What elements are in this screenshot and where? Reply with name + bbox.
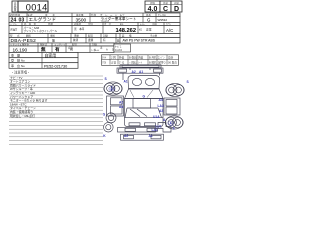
- svg-text:車検: 車検: [50, 34, 55, 38]
- table row2 header: [9, 22, 180, 26]
- svg-text:A2: A2: [119, 101, 123, 105]
- right side view panel: [164, 98, 180, 115]
- grade box D: [171, 1, 182, 13]
- svg-text:A2: A2: [124, 134, 128, 138]
- connector box: [114, 44, 131, 52]
- svg-text:A/C: A/C: [166, 28, 173, 33]
- svg-text:自税: 自税: [68, 46, 73, 50]
- svg-text:評価: 評価: [150, 1, 155, 5]
- roof rear edge band with hatch: [127, 107, 158, 109]
- svg-text:その他: その他: [150, 34, 158, 38]
- front bumper bar: [117, 68, 163, 73]
- svg-text:取説: 取説: [88, 34, 93, 38]
- grade box C: [160, 1, 171, 13]
- table row1 header: [9, 13, 180, 17]
- svg-text:内装: 内装: [138, 56, 144, 60]
- table row1 values: [9, 13, 180, 24]
- cabin: [125, 99, 164, 118]
- table row7 shadai No PE52-021730: [9, 63, 78, 69]
- svg-text:装 備: 装 備: [122, 34, 132, 38]
- left bottom wheel: [106, 113, 116, 123]
- svg-text:パール・SAB: パール・SAB: [24, 26, 40, 30]
- grade box 4.0: [145, 1, 160, 13]
- svg-text:C: C: [163, 6, 168, 13]
- svg-text:A1: A1: [139, 70, 143, 74]
- notes text lines: [10, 75, 48, 118]
- svg-text:A3: A3: [159, 109, 163, 113]
- lot label vertical box: [12, 1, 18, 12]
- svg-text:記録: 記録: [103, 34, 108, 38]
- bonnet panel: [128, 76, 160, 89]
- svg-text:正常: 正常: [146, 28, 152, 32]
- notes ruled lines with sales points: [9, 76, 103, 144]
- svg-text:B 汚れ: B 汚れ: [149, 56, 157, 60]
- svg-text:B 擦れ: B 擦れ: [149, 61, 157, 65]
- svg-text:黒 本革: 黒 本革: [74, 27, 85, 31]
- table row4 header recycle: [9, 43, 114, 47]
- svg-text:G: G: [143, 95, 146, 99]
- svg-text:2 回: 2 回: [111, 56, 116, 60]
- table row4 values 16.190: [9, 43, 114, 53]
- svg-text:装: 装: [117, 38, 120, 42]
- right bottom wheel housing: [165, 116, 183, 129]
- right top wheel pair: [166, 85, 177, 96]
- svg-text:A1: A1: [124, 80, 128, 84]
- svg-text:148.262: 148.262: [115, 28, 136, 34]
- svg-text:現状渡し・MiL点灯: 現状渡し・MiL点灯: [10, 113, 35, 118]
- damage codes blue: [103, 70, 190, 138]
- svg-text:書類: 書類: [74, 34, 79, 38]
- table row3 values DBA-PE52 / equipment: [9, 34, 180, 45]
- svg-text:外装: 外装: [163, 1, 168, 5]
- svg-text:ｴﾝｼﾞﾝ: ｴﾝｼﾞﾝ: [158, 57, 165, 60]
- svg-text:4.0: 4.0: [148, 6, 158, 13]
- svg-text:書類: 書類: [88, 38, 94, 42]
- svg-text:A3: A3: [119, 105, 123, 109]
- svg-text:A2: A2: [132, 70, 136, 74]
- svg-text:良好: 良好: [168, 56, 174, 60]
- rear gate bar: [118, 128, 156, 133]
- svg-text:LA3: LA3: [158, 104, 164, 108]
- svg-text:ブリリアントホワイトパール: ブリリアントホワイトパール: [24, 29, 58, 33]
- svg-text:自家用: 自家用: [45, 53, 57, 58]
- svg-text:ﾉｰｸﾚｰﾑ: ﾉｰｸﾚｰﾑ: [91, 48, 99, 52]
- svg-text:LA1: LA1: [152, 128, 158, 132]
- svg-text:番: 番: [14, 8, 17, 12]
- svg-text:9-AX4: 9-AX4: [115, 49, 123, 52]
- equipment condition grid right: [102, 55, 179, 66]
- svg-text:PE52-021730: PE52-021730: [44, 64, 67, 68]
- svg-text:G: G: [147, 17, 151, 22]
- svg-text:内装: 内装: [174, 1, 179, 5]
- svg-text:正常: 正常: [111, 61, 117, 65]
- svg-text:類別: 類別: [26, 34, 31, 38]
- left side view panel: [107, 96, 124, 116]
- svg-text:抹消: 抹消: [73, 38, 79, 42]
- roof strip bar: [120, 65, 161, 68]
- svg-text:無: 無: [52, 38, 55, 43]
- svg-text:型 式: 型 式: [10, 34, 20, 38]
- right top wheel housing: [166, 83, 184, 96]
- svg-text:・注意事項・: ・注意事項・: [11, 70, 30, 75]
- svg-text:0014: 0014: [26, 2, 48, 12]
- svg-text:ｶﾞﾗｽ: ｶﾞﾗｽ: [119, 61, 125, 65]
- svg-text:A: A: [106, 48, 108, 52]
- rear panel: [125, 118, 164, 127]
- fender connector lines: [122, 73, 124, 80]
- left top wheel pair: [104, 83, 115, 94]
- stepped rear corner: [158, 123, 171, 133]
- svg-text:足回り: 足回り: [158, 61, 166, 65]
- left top wheel housing: [104, 82, 122, 95]
- svg-text:A1: A1: [149, 134, 153, 138]
- table row3 header: [9, 34, 180, 38]
- svg-text:B 傷凹: B 傷凹: [129, 56, 137, 60]
- svg-text:D: D: [174, 6, 179, 13]
- table row5 shaReki jikayou: [9, 53, 78, 58]
- spare tire: [104, 122, 114, 132]
- svg-text:登 録 No: 登 録 No: [11, 58, 25, 63]
- svg-text:有: 有: [103, 38, 106, 42]
- svg-text:00 異音: 00 異音: [168, 61, 177, 65]
- sunroof: [133, 99, 151, 109]
- tail lights: [129, 123, 140, 126]
- svg-text:U1A: U1A: [153, 115, 160, 119]
- svg-text:A4: A4: [159, 98, 163, 102]
- table row6 touroku No: [9, 58, 78, 63]
- windshield trapezoid with cross: [125, 89, 164, 99]
- rear bumper bar: [121, 134, 164, 140]
- svg-text:車 歴: 車 歴: [11, 53, 20, 58]
- svg-text:外装: 外装: [119, 56, 125, 60]
- right bottom wheel pair: [166, 117, 177, 128]
- notes heading: [11, 70, 30, 75]
- svg-text:○ 飛石: ○ 飛石: [129, 61, 137, 65]
- table row2 values: [9, 23, 180, 34]
- svg-text:AW PS PW STR ABS: AW PS PW STR ABS: [123, 38, 156, 42]
- svg-text:ｻｰﾋﾞｽ: ｻｰﾋﾞｽ: [115, 45, 122, 49]
- svg-text:FAT: FAT: [11, 28, 18, 32]
- car diagram: [104, 65, 185, 140]
- svg-text:車 台 No: 車 台 No: [11, 63, 25, 68]
- lot number 0014: [18, 1, 48, 12]
- svg-text:W9532: W9532: [158, 18, 168, 22]
